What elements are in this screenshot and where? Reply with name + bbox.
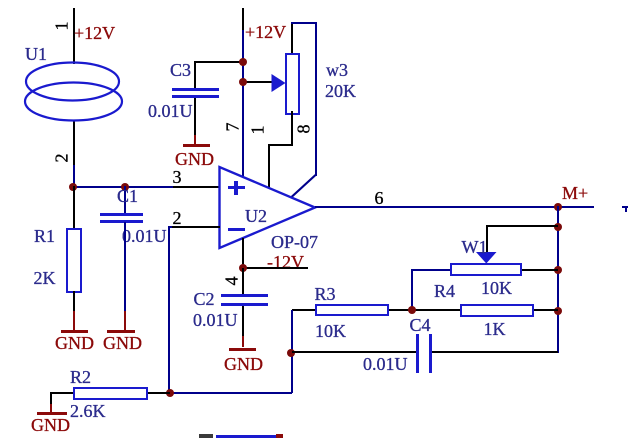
node junction dot (M+) <box>554 203 562 211</box>
label C3 <box>170 61 191 79</box>
wire C2 top lead <box>242 268 244 294</box>
node M+ label <box>562 184 588 202</box>
wire node A horizontal to op-amp pin3 <box>72 186 174 188</box>
power +12V (rail) <box>245 23 286 41</box>
label C2 <box>194 290 215 308</box>
wire R4 right lead <box>534 309 558 311</box>
wire +12V / pin7 rail <box>242 8 244 33</box>
label R1 <box>34 227 55 245</box>
op-amp minus input mark <box>228 228 245 231</box>
label w3 <box>326 61 348 79</box>
node junction dot (C3 / rail) <box>239 58 247 66</box>
potentiometer W1 body <box>450 263 522 276</box>
resistor R2 <box>73 387 148 400</box>
wire bottom feedback <box>170 392 292 394</box>
node junction dot (wiper / rail) <box>239 78 247 86</box>
value 2.6K <box>70 402 106 420</box>
wire op-amp pin4 <box>242 238 244 268</box>
resistor R4 <box>460 304 534 317</box>
pin number 6 <box>375 189 384 207</box>
label U1 <box>25 45 47 63</box>
wire W1 left lead <box>411 269 450 271</box>
capacitor C2 <box>221 294 268 297</box>
wire w3 top lead to pin8 <box>291 23 293 53</box>
wire C3 bottom lead <box>194 98 196 135</box>
value 2K <box>34 269 56 287</box>
capacitor C3 <box>172 88 219 91</box>
wire right edge stub <box>622 206 628 208</box>
wire C4 left lead <box>292 351 417 353</box>
ground (R1) <box>73 311 75 330</box>
pin number 4 <box>223 277 241 286</box>
node junction dot (C4 left) <box>287 349 295 357</box>
resistor R3 <box>315 304 389 316</box>
wire R1 top lead <box>73 186 75 228</box>
label W1 <box>462 238 488 256</box>
node junction dot A1 <box>69 183 77 191</box>
wire C2 bottom lead <box>242 306 244 336</box>
capacitor C1 <box>100 213 143 216</box>
wire W1 wiper <box>486 226 488 253</box>
ground (C2) <box>242 336 244 347</box>
value 10K (W1) <box>481 279 512 297</box>
op-amp plus input mark <box>228 186 245 189</box>
pin number 7 <box>224 123 242 132</box>
power -12V <box>267 253 304 271</box>
node junction dot (R2 / pin2) <box>166 389 174 397</box>
bottom edge cropped element <box>199 434 213 438</box>
pin number 2 (op-amp) <box>173 209 182 227</box>
label R2 <box>70 368 91 386</box>
potentiometer w3 body <box>285 53 300 115</box>
wire R2 left lead <box>50 392 73 394</box>
wire w3 bottom lead to pin1 <box>291 111 293 146</box>
label R4 <box>434 282 455 300</box>
ground (C3) <box>194 135 196 144</box>
node junction dot (R3/R4/W1) <box>408 306 416 314</box>
label U2 <box>245 207 267 225</box>
pin number 3 <box>173 168 182 186</box>
node junction dot (pin4) <box>239 264 247 272</box>
node junction dot A2 (C1 tap) <box>121 183 129 191</box>
wire vertical feedback (left of C4) <box>291 310 293 393</box>
label C1 <box>117 187 138 205</box>
pin number 1 (op-amp) <box>249 125 267 134</box>
ground (C1) <box>124 311 126 330</box>
wire op-amp pin2 <box>168 226 174 228</box>
pin number 1 (U1) <box>53 22 71 31</box>
label R3 <box>315 285 336 303</box>
node junction dot (R4 right / rail) <box>554 307 562 315</box>
wire C1 bottom lead <box>124 222 126 311</box>
wire U1 pin2 bottom lead <box>73 120 75 165</box>
pin number 8 <box>295 125 313 134</box>
value 0.01U (C4) <box>363 355 408 373</box>
wire R1 bottom lead <box>73 291 75 311</box>
value 1K <box>484 320 506 338</box>
node junction dot (wiper W1 / rail) <box>554 223 562 231</box>
label OP-07 <box>271 233 318 251</box>
resistor R1 <box>66 228 82 293</box>
ground (R2) <box>50 404 52 412</box>
value 20K <box>325 82 356 100</box>
wire right rail <box>557 206 559 353</box>
wire U1 pin1 top lead <box>73 8 75 64</box>
wire C4 right lead <box>432 351 558 353</box>
value 0.01U (C1) <box>122 227 167 245</box>
wire R3 left lead <box>292 309 315 311</box>
wire R2 right lead <box>148 392 170 394</box>
wire output pin6 <box>315 206 594 208</box>
node junction dot (W1 right / rail) <box>554 266 562 274</box>
value 10K (R3) <box>315 322 346 340</box>
wire W1 right lead <box>522 269 558 271</box>
capacitor C4 <box>416 334 419 373</box>
value 0.01U (C3) <box>148 102 193 120</box>
wire w3 wiper from rail <box>243 81 272 83</box>
power +12V (U1) <box>74 24 115 42</box>
wire C1 top lead <box>124 186 126 214</box>
label C4 <box>410 316 431 334</box>
value 0.01U (C2) <box>193 311 238 329</box>
pin number 2 (U1) <box>53 154 71 163</box>
wire C3 top lead <box>194 61 244 63</box>
wire R3 right lead <box>389 309 460 311</box>
